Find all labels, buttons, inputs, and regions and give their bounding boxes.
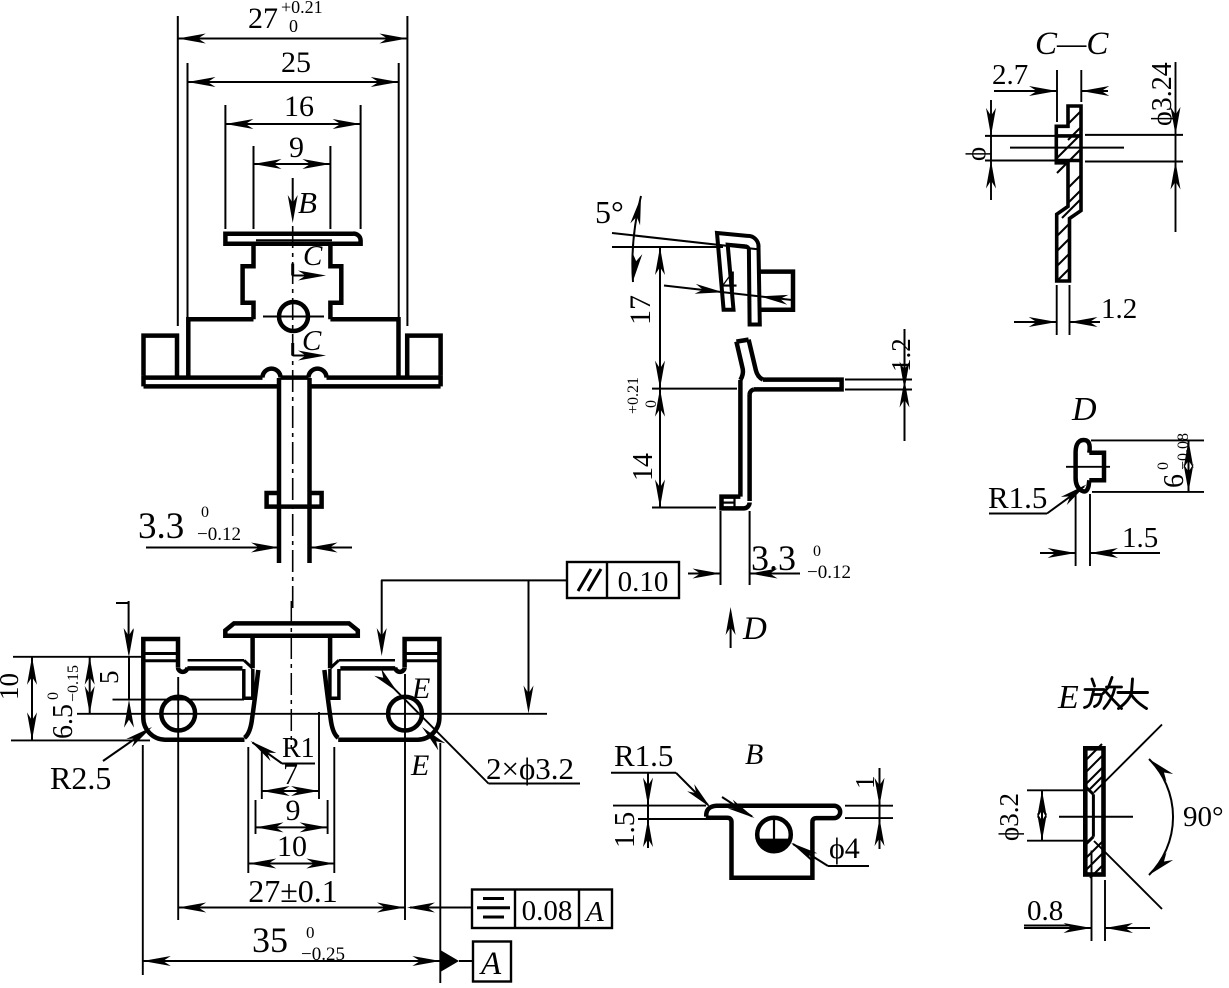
dimension 1.5 (view B left, bar end thickness) xyxy=(613,805,706,807)
plan view right ear (bent tab) xyxy=(405,639,440,671)
front view stem flange xyxy=(267,493,322,507)
side view horizontal arm (1.2 thick) xyxy=(754,380,842,390)
dimension 3.3 0/-0.12 (side view foot) xyxy=(720,511,722,585)
svg-text:17: 17 xyxy=(624,295,657,325)
svg-text:D: D xyxy=(742,611,767,647)
svg-text:0: 0 xyxy=(643,400,660,408)
svg-text:9: 9 xyxy=(286,794,301,827)
side view bent lug strip xyxy=(736,340,748,342)
datum A triangle and frame xyxy=(440,950,459,972)
plan view ledge lines near ears xyxy=(188,659,244,662)
section C-C profile outline xyxy=(1056,106,1081,281)
svg-text:0: 0 xyxy=(813,543,821,560)
dimension 17 / 14 +0.21/0 shared vertical dimension line xyxy=(612,246,723,248)
front view hole circle xyxy=(279,302,308,331)
front view base plate bottom edge xyxy=(144,384,280,389)
dimension 3.3 0/-0.12 (stem width, front view) xyxy=(146,547,279,549)
svg-text:6.5: 6.5 xyxy=(48,704,79,739)
front view base plate top edge with stem notches xyxy=(144,375,263,380)
plan view rivet holes 2xphi3.2 xyxy=(161,697,195,731)
dimension 7 (slot top width) xyxy=(261,749,263,799)
view arrow B xyxy=(292,178,294,216)
svg-text:5: 5 xyxy=(94,671,124,685)
svg-text:7: 7 xyxy=(283,758,298,791)
svg-text:6: 6 xyxy=(1159,474,1190,488)
svg-text:C: C xyxy=(303,240,323,272)
dimension 9 xyxy=(253,146,255,229)
section C-C boss faces xyxy=(1056,134,1081,138)
dimension 2.7 (C-C) xyxy=(1056,70,1058,122)
svg-text:ϕ3.2: ϕ3.2 xyxy=(994,793,1024,841)
plan view central slot flanks with R1 fillets xyxy=(245,670,259,738)
90 degree countersink angle annotation xyxy=(1094,725,1162,793)
front view: spring contact bracket, front projection outline xyxy=(225,234,360,246)
svg-text:9: 9 xyxy=(289,131,304,164)
section cut C lower with arrow xyxy=(291,343,294,356)
front view vertical centreline (dash-dot) xyxy=(292,226,294,612)
svg-text:+0.21: +0.21 xyxy=(281,0,323,17)
dimension 6.5 0/-0.15 (plan view left) xyxy=(89,657,91,714)
svg-text:35: 35 xyxy=(252,920,288,960)
svg-text:0.10: 0.10 xyxy=(618,566,669,598)
svg-text:1.5: 1.5 xyxy=(609,812,641,848)
base notch bumps (semicircular reliefs) xyxy=(263,369,281,378)
view B spot-weld circle with filled symbol xyxy=(757,818,791,852)
side view foot with step xyxy=(722,497,750,509)
hole callout 2x phi3.2 xyxy=(489,783,581,785)
dimension 25 xyxy=(187,63,189,317)
view D foot shape outline xyxy=(1076,440,1090,491)
svg-text:A: A xyxy=(479,946,502,982)
svg-text:1: 1 xyxy=(850,776,880,790)
svg-text:E: E xyxy=(1057,679,1079,716)
section cut C upper with arrow xyxy=(291,264,294,276)
dimension 27 +0.21/0 (front view top) xyxy=(177,16,179,326)
view E hole axis centreline xyxy=(1059,816,1133,818)
svg-text:0: 0 xyxy=(289,16,298,36)
local view E cutting diagonal with arrows xyxy=(384,678,489,783)
dimension 1.2 (arm thickness) xyxy=(845,379,912,381)
svg-text:0: 0 xyxy=(201,504,209,521)
svg-text:C—C: C—C xyxy=(1035,26,1109,62)
svg-text:E: E xyxy=(410,749,429,782)
svg-text:−0.12: −0.12 xyxy=(807,562,851,583)
svg-text:0.8: 0.8 xyxy=(1027,895,1063,927)
svg-text:0.08: 0.08 xyxy=(522,895,573,927)
svg-text:5°: 5° xyxy=(595,194,624,230)
dimension 35 0/-0.25 (overall width) xyxy=(142,745,144,975)
symmetry tolerance frame 0.08 A xyxy=(472,890,612,929)
plan view neck sides xyxy=(250,636,255,669)
view E plate section outline xyxy=(1085,748,1103,874)
svg-text:2×ϕ3.2: 2×ϕ3.2 xyxy=(486,751,574,786)
side view: bracket cap channel cross-section (closed sheet profile) xyxy=(717,233,760,325)
svg-text:R1.5: R1.5 xyxy=(614,738,673,773)
svg-text:−0.08: −0.08 xyxy=(1175,433,1192,470)
hole vertical centrelines / extension lines xyxy=(177,677,179,920)
view E hatching xyxy=(1086,744,1102,760)
front view right wing xyxy=(407,336,440,376)
dimension 1.2 (C-C) xyxy=(1056,285,1058,335)
svg-text:R1.5: R1.5 xyxy=(988,480,1047,515)
svg-text:1.2: 1.2 xyxy=(1101,293,1137,325)
svg-text:+0.21: +0.21 xyxy=(625,377,642,414)
dimension 27 +/- 0.1 (hole centres) xyxy=(178,907,405,909)
dimension phi3.24 (C-C right) xyxy=(1085,134,1183,136)
plan view ear notch nubs xyxy=(178,667,187,672)
svg-text:−0.12: −0.12 xyxy=(197,524,241,545)
dimension 10 (slot bottom width) xyxy=(247,747,249,873)
svg-text:10: 10 xyxy=(0,673,24,700)
svg-text:−0.15: −0.15 xyxy=(65,665,82,702)
parallelism leader to right ear xyxy=(382,580,567,648)
svg-text:3.3: 3.3 xyxy=(751,538,796,578)
view E hole wall and chamfer edges xyxy=(1092,794,1095,836)
parallelism tolerance frame // 0.10 xyxy=(567,562,679,598)
front view cap inner bend line xyxy=(256,239,332,241)
section C-C hatching xyxy=(1068,111,1081,124)
svg-text:B: B xyxy=(298,185,317,220)
svg-text:ϕ: ϕ xyxy=(961,147,991,161)
front view shoulders and body sides xyxy=(188,319,253,375)
dimension phi3.2 (view E) xyxy=(1027,789,1085,791)
svg-text:0: 0 xyxy=(45,692,62,700)
dimension 5 (plan view left) xyxy=(128,657,130,700)
svg-text:−0.25: −0.25 xyxy=(301,944,345,965)
plan view left ear (bent tab) xyxy=(143,639,178,671)
view arrow D xyxy=(730,613,732,648)
svg-text:ϕ4: ϕ4 xyxy=(829,832,860,865)
svg-text:B: B xyxy=(745,738,763,771)
section C-C hole axis centreline xyxy=(1010,147,1124,149)
dimension 16 xyxy=(224,105,226,229)
front view neck and side tabs outline xyxy=(243,246,254,319)
svg-text:A: A xyxy=(584,896,604,928)
plan view tab-bottom extension line xyxy=(113,699,245,701)
svg-text:16: 16 xyxy=(284,90,314,123)
side view small side tab xyxy=(759,272,793,310)
dimension 1 (view B bar thickness) xyxy=(845,805,893,807)
front view left wing xyxy=(144,336,178,376)
view B T-shape outline xyxy=(706,806,840,878)
plan view bottom edges with R2.5 corners xyxy=(143,671,244,740)
dimension 6 0/-0.08 (view D) xyxy=(1091,439,1204,441)
svg-text:0: 0 xyxy=(306,923,315,942)
front view stem (contact blade) xyxy=(277,378,282,563)
dimension 0.8 (view E) xyxy=(1091,851,1093,942)
dimension phi (boss, C-C left) xyxy=(985,135,1056,137)
plan view vertical centreline (dash-dot) xyxy=(290,601,292,748)
dimension 1.5 (view D) xyxy=(1075,494,1077,566)
svg-text:ϕ3.24: ϕ3.24 xyxy=(1147,62,1178,126)
svg-text:1.5: 1.5 xyxy=(1122,522,1158,554)
chinese character DA (big) xyxy=(1118,679,1148,709)
dimension 4 (slanted tab width) xyxy=(664,286,792,301)
svg-text:27±0.1: 27±0.1 xyxy=(248,873,338,909)
chinese character FANG (release) xyxy=(1085,678,1122,709)
svg-text:0: 0 xyxy=(1155,462,1172,470)
svg-text:R2.5: R2.5 xyxy=(50,760,111,796)
parallelism leader second branch to hole centreline xyxy=(528,580,530,706)
svg-text:4: 4 xyxy=(722,265,737,298)
dimension 10 (plan view left) xyxy=(13,656,143,658)
svg-text:25: 25 xyxy=(281,46,311,79)
svg-text:1.2: 1.2 xyxy=(886,338,916,372)
svg-text:14: 14 xyxy=(628,453,659,481)
svg-text:C: C xyxy=(302,325,322,357)
svg-text:10: 10 xyxy=(277,830,307,863)
symmetry frame leader arrow xyxy=(410,907,472,909)
svg-text:27: 27 xyxy=(248,2,278,35)
svg-text:90°: 90° xyxy=(1183,801,1224,833)
plan view horizontal hole centreline xyxy=(77,713,547,715)
plan view side tab projections xyxy=(244,669,253,698)
parallelism leader arrow at left ear xyxy=(116,602,129,604)
svg-text:2.7: 2.7 xyxy=(992,59,1028,91)
plan view cap with chamfered corners xyxy=(225,623,357,635)
svg-text:E: E xyxy=(411,672,430,705)
side view lower vertical wall xyxy=(738,380,743,497)
dimension 9 (plan view neck width) xyxy=(255,800,257,834)
svg-text:3.3: 3.3 xyxy=(138,506,184,547)
svg-text:D: D xyxy=(1071,391,1097,428)
